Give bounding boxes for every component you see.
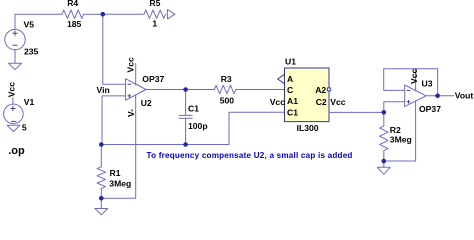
- svg-text:3Meg: 3Meg: [390, 135, 412, 145]
- capacitor C1: [179, 90, 192, 145]
- svg-text:OP37: OP37: [419, 104, 441, 114]
- svg-text:C2: C2: [316, 97, 327, 107]
- resistor R2: [380, 112, 388, 160]
- U1 pin A arrow: [278, 74, 285, 83]
- bottom rail: [101, 144, 229, 146]
- svg-text:1: 1: [152, 18, 157, 28]
- svg-text:U2: U2: [141, 98, 152, 108]
- svg-text:IL300: IL300: [297, 123, 319, 133]
- resistor R3: [214, 85, 236, 93]
- svg-text:Vin: Vin: [97, 85, 110, 95]
- junction Vin node at R4/R5: [101, 12, 106, 17]
- svg-text:R2: R2: [390, 125, 401, 135]
- svg-text:R3: R3: [221, 74, 232, 84]
- svg-text:.op: .op: [8, 145, 25, 157]
- svg-text:Vcc: Vcc: [270, 97, 286, 107]
- svg-text:V-: V-: [126, 109, 136, 117]
- wire U2 lower input to rail: [102, 96, 126, 145]
- junction U3 output / feedback: [435, 94, 440, 99]
- svg-text:A2: A2: [315, 85, 326, 95]
- op-amp U2: [101, 64, 146, 199]
- svg-text:A: A: [287, 74, 293, 84]
- svg-text:3Meg: 3Meg: [109, 179, 131, 189]
- wire rail up to U1 pin C1: [229, 112, 285, 144]
- svg-text:V1: V1: [24, 97, 35, 107]
- wire U2 output: [146, 89, 214, 91]
- U1 pin A2 open square: [327, 88, 330, 91]
- svg-text:5: 5: [22, 122, 27, 132]
- svg-text:Vcc: Vcc: [7, 82, 17, 98]
- op-amp U3: [384, 69, 426, 161]
- resistor R4: [62, 10, 84, 18]
- junction R1 bottom / U2 V- / ground: [99, 196, 104, 201]
- ground under V5: [9, 63, 22, 69]
- svg-text:U1: U1: [285, 56, 296, 66]
- voltage source V1: [4, 98, 24, 124]
- svg-text:100p: 100p: [188, 121, 208, 131]
- wire R4 to R5: [84, 13, 144, 15]
- wire node to U3 +in: [384, 102, 405, 113]
- svg-text:V5: V5: [24, 20, 35, 30]
- feedback wire U3: [384, 69, 438, 96]
- voltage source V5: [5, 14, 25, 63]
- svg-text:500: 500: [220, 96, 235, 106]
- svg-text:R1: R1: [110, 168, 121, 178]
- svg-text:235: 235: [24, 47, 39, 57]
- svg-text:Vcc: Vcc: [126, 57, 136, 73]
- svg-text:A1: A1: [287, 96, 298, 106]
- svg-text:To frequency compensate U2, a: To frequency compensate U2, a small cap …: [147, 151, 353, 160]
- svg-text:Vcc: Vcc: [330, 97, 346, 107]
- wire U1 right pin to node: [329, 111, 384, 113]
- svg-text:U3: U3: [422, 78, 433, 88]
- svg-text:C1: C1: [188, 103, 199, 113]
- junction R2 top / U3 +in node: [382, 110, 387, 115]
- ground under R2: [377, 161, 390, 174]
- svg-text:R5: R5: [149, 0, 160, 8]
- svg-text:Vout: Vout: [455, 90, 474, 100]
- junction U2 output / C1 top: [183, 87, 188, 92]
- svg-text:C: C: [287, 85, 293, 95]
- wire top rail V5 to R4: [15, 13, 62, 15]
- ground under R1: [95, 198, 108, 215]
- resistor R5: [144, 10, 166, 18]
- wire R3 to U1 pin C: [236, 89, 285, 91]
- IC U1 IL300 body: [285, 68, 330, 122]
- wire junction top to U2 +in: [103, 14, 126, 84]
- wire U3 output to Vout: [426, 95, 454, 97]
- junction rail / C1 bottom: [183, 142, 188, 147]
- svg-text:Vcc: Vcc: [409, 68, 419, 84]
- junction rail / R1 top: [99, 142, 104, 147]
- port flag after R5: [167, 10, 175, 19]
- svg-text:185: 185: [67, 19, 82, 29]
- ground under V1: [7, 125, 20, 131]
- svg-text:OP37: OP37: [142, 74, 164, 84]
- svg-text:R4: R4: [67, 0, 78, 8]
- svg-text:C1: C1: [287, 108, 298, 118]
- resistor R1: [97, 145, 105, 200]
- junction R2 bottom / U3 V- / ground: [382, 159, 387, 164]
